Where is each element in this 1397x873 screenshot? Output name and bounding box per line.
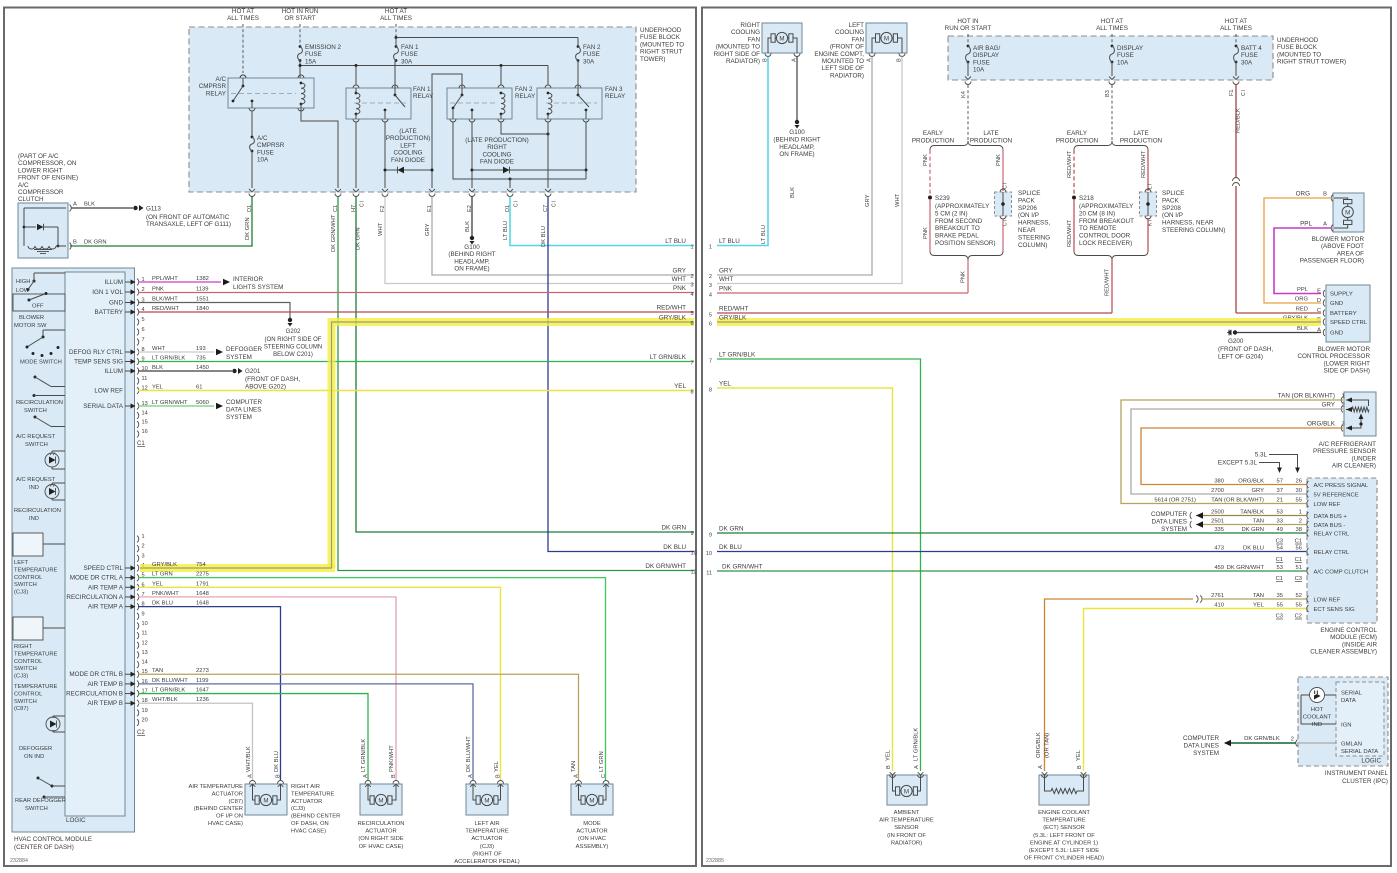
page 1 border frame: [4, 8, 696, 867]
switch: LEFT TEMPERATURE CONTROL SWITCH (CJ3): [13, 533, 43, 556]
svg-text:CONTROL DOOR: CONTROL DOOR: [1079, 233, 1131, 240]
svg-text:15: 15: [142, 420, 148, 426]
svg-text:TEMPERATURE: TEMPERATURE: [1042, 818, 1086, 824]
split brace top (PNK): [930, 141, 1003, 150]
svg-text:RELAY: RELAY: [413, 93, 434, 100]
svg-text:HIGH: HIGH: [16, 279, 31, 285]
svg-text:DK GRN/WHT: DK GRN/WHT: [1227, 565, 1265, 571]
svg-text:A: A: [248, 774, 254, 778]
wire: PNK late production into splice pack SP206: [1002, 150, 1004, 191]
svg-text:YEL: YEL: [719, 381, 731, 388]
svg-text:TEMP SENS SIG: TEMP SENS SIG: [74, 359, 123, 366]
svg-text:SP206: SP206: [1018, 205, 1037, 212]
wire: FAN2 coil joins FAN3 coil control column: [501, 122, 548, 134]
svg-text:YEL: YEL: [1076, 749, 1082, 761]
svg-text:RIGHT: RIGHT: [14, 644, 32, 650]
svg-text:(BEHIND RIGHT: (BEHIND RIGHT: [448, 251, 495, 258]
svg-text:B: B: [73, 240, 77, 246]
svg-text:7: 7: [709, 359, 712, 365]
svg-text:DEFOGGER: DEFOGGER: [226, 346, 262, 353]
svg-text:RIGHT AIR: RIGHT AIR: [291, 784, 320, 790]
indicator: HOT COOLANT IND: [1310, 688, 1325, 703]
splice pack SP206 box: [995, 192, 1012, 216]
svg-text:TEMPERATURE: TEMPERATURE: [465, 829, 509, 835]
fuse: EMISSION 2 FUSE 15A: [299, 45, 302, 48]
svg-text:B: B: [886, 765, 892, 769]
svg-text:30A: 30A: [583, 58, 595, 65]
svg-text:HOT IN RUN: HOT IN RUN: [282, 8, 319, 15]
svg-text:MODE SWITCH: MODE SWITCH: [20, 360, 62, 366]
svg-text:FUSE: FUSE: [583, 51, 600, 58]
svg-text:TOWER): TOWER): [640, 56, 665, 63]
svg-text:TAN (OR BLK/WHT): TAN (OR BLK/WHT): [1278, 393, 1335, 400]
svg-text:RELAY: RELAY: [515, 93, 536, 100]
svg-text:C1: C1: [1276, 557, 1283, 563]
svg-text:1648: 1648: [196, 601, 209, 607]
svg-text:380: 380: [1214, 479, 1224, 485]
svg-text:YEL: YEL: [152, 385, 164, 391]
svg-text:IND: IND: [1312, 722, 1322, 728]
svg-text:DK BLU: DK BLU: [541, 226, 547, 247]
svg-text:CONTROL: CONTROL: [14, 691, 43, 697]
svg-text:WHT/BLK: WHT/BLK: [152, 697, 178, 703]
svg-text:C l: C l: [1003, 183, 1009, 189]
IPC wiring: serial data / ign loop: [1325, 694, 1337, 696]
svg-text:PNK: PNK: [923, 227, 929, 239]
svg-text:C l: C l: [552, 201, 558, 207]
indicator: RECIRCULATION IND: [52, 482, 65, 484]
svg-text:1236: 1236: [196, 697, 209, 703]
svg-text:F1: F1: [1229, 89, 1235, 96]
component: BLOWER MOTOR CONTROL PROCESSOR box: [1326, 285, 1370, 342]
svg-text:9: 9: [142, 611, 145, 617]
svg-text:WHT: WHT: [672, 276, 686, 283]
svg-text:OFF: OFF: [32, 304, 44, 310]
svg-text:A: A: [574, 774, 580, 778]
svg-text:5: 5: [691, 311, 694, 317]
wire: PNK early production with splice S239: [929, 150, 931, 196]
svg-text:PNK: PNK: [152, 287, 164, 293]
svg-text:C1: C1: [137, 441, 145, 447]
svg-text:NEAR: NEAR: [1018, 227, 1036, 234]
svg-text:A/C PRESS SIGNAL: A/C PRESS SIGNAL: [1314, 483, 1369, 489]
svg-text:B: B: [276, 774, 282, 778]
svg-text:FUSE: FUSE: [401, 51, 418, 58]
svg-text:DK BLU: DK BLU: [663, 544, 686, 551]
svg-text:PACK: PACK: [1018, 197, 1035, 204]
actuator M1: AIR TEMPERATURE ACTUATOR (C87) / RIGHT AIR TEMPERATURE ACTUATOR (CJ3): [245, 784, 287, 815]
svg-text:OF DASH, ON: OF DASH, ON: [291, 821, 329, 827]
wire: RED/WHT merged down to row 5: [1111, 260, 1113, 313]
wire: YEL from ECT pin B up to ECM ECT SENS SIG row: [1084, 609, 1307, 772]
svg-text:(UNDER: (UNDER: [1352, 455, 1377, 462]
splice pack SP208 box: [1140, 192, 1157, 216]
svg-text:ACTUATOR: ACTUATOR: [291, 799, 322, 805]
svg-text:1647: 1647: [196, 688, 209, 694]
svg-text:OF I/P ON: OF I/P ON: [216, 814, 243, 820]
wire: DK GRN from D1 to compressor clutch pin B: [70, 197, 252, 247]
svg-text:(ON RIGHT SIDE: (ON RIGHT SIDE: [358, 836, 403, 842]
svg-text:5: 5: [709, 313, 712, 319]
motor: RIGHT COOLING FAN: [762, 23, 802, 53]
wire: LT GRN/BLK row 7 to ambient sensor pin A: [717, 359, 921, 771]
svg-text:TEMPERATURE: TEMPERATURE: [14, 567, 58, 573]
svg-text:ON IND: ON IND: [24, 754, 44, 760]
svg-text:10A: 10A: [973, 67, 985, 74]
svg-text:335: 335: [1214, 527, 1224, 533]
svg-text:FAN 2: FAN 2: [515, 86, 533, 93]
svg-text:WHT: WHT: [378, 222, 384, 236]
svg-text:SWITCH: SWITCH: [14, 582, 37, 588]
svg-text:ECT SENS SIG: ECT SENS SIG: [1314, 607, 1356, 613]
svg-text:G100: G100: [789, 129, 805, 136]
svg-text:HOT AT: HOT AT: [1225, 18, 1247, 25]
svg-text:RIGHT STRUT TOWER): RIGHT STRUT TOWER): [1277, 59, 1346, 66]
svg-text:(ON I/P: (ON I/P: [1018, 212, 1039, 219]
svg-text:410: 410: [1214, 603, 1224, 609]
svg-text:IGN: IGN: [1341, 723, 1351, 729]
svg-text:2: 2: [1291, 737, 1294, 743]
svg-text:(CJ3): (CJ3): [480, 844, 494, 850]
svg-text:BREAKOUT TO: BREAKOUT TO: [935, 225, 980, 232]
svg-text:A/C: A/C: [257, 135, 268, 142]
svg-text:RELAY: RELAY: [605, 93, 626, 100]
diode D-right: (LATE PRODUCTION) RIGHT COOLING FAN DIODE: [472, 169, 586, 171]
svg-text:RIGHT: RIGHT: [487, 144, 507, 151]
svg-text:5V REFERENCE: 5V REFERENCE: [1314, 492, 1359, 498]
wire: FAN2 switch output to E2 terminal: [471, 122, 473, 188]
svg-text:ACTUATOR: ACTUATOR: [212, 791, 243, 797]
svg-text:YEL: YEL: [1253, 603, 1265, 609]
svg-text:DATA BUS -: DATA BUS -: [1314, 523, 1346, 529]
svg-text:CLUTCH: CLUTCH: [18, 196, 44, 203]
connector C2 pin brackets 1-20: [137, 536, 139, 543]
svg-text:LOWER RIGHT: LOWER RIGHT: [18, 167, 63, 174]
svg-text:RADIATOR): RADIATOR): [891, 840, 922, 846]
svg-text:AIR CLEANER): AIR CLEANER): [1332, 463, 1376, 470]
svg-text:57: 57: [1277, 479, 1283, 485]
svg-text:(CJ3): (CJ3): [14, 674, 28, 680]
svg-text:DEFOGGER: DEFOGGER: [19, 746, 52, 752]
svg-text:C1: C1: [1295, 557, 1302, 563]
svg-text:9: 9: [691, 531, 694, 537]
svg-text:A: A: [914, 765, 920, 769]
svg-text:(RIGHT OF: (RIGHT OF: [472, 851, 502, 857]
connector C1 pin brackets 1-16: [137, 279, 139, 286]
svg-text:GRY: GRY: [1321, 402, 1335, 409]
svg-text:DEFOG RLY CTRL: DEFOG RLY CTRL: [69, 349, 123, 356]
svg-text:RELAY CTRL: RELAY CTRL: [1314, 550, 1351, 556]
svg-text:FAN 3: FAN 3: [605, 86, 623, 93]
svg-text:(BEHIND CENTER: (BEHIND CENTER: [194, 806, 243, 812]
svg-text:459: 459: [1214, 565, 1224, 571]
svg-text:D: D: [1317, 298, 1321, 304]
svg-text:ACTUATOR: ACTUATOR: [471, 836, 502, 842]
svg-text:DK GRN: DK GRN: [662, 525, 687, 532]
svg-text:49: 49: [1277, 527, 1283, 533]
ground G100 (page1): [470, 236, 474, 240]
svg-text:11: 11: [691, 570, 697, 576]
svg-text:PPL: PPL: [1297, 287, 1309, 293]
svg-text:PNK: PNK: [961, 271, 967, 283]
svg-text:COMPUTER: COMPUTER: [226, 399, 262, 406]
svg-text:3: 3: [691, 283, 694, 289]
svg-text:M: M: [779, 35, 784, 42]
svg-text:LOGIC: LOGIC: [1361, 758, 1381, 765]
svg-text:(FRONT OF: (FRONT OF: [830, 44, 864, 51]
svg-text:LOW REF: LOW REF: [1314, 597, 1341, 603]
svg-text:S239: S239: [935, 195, 950, 202]
svg-text:INSTRUMENT PANEL: INSTRUMENT PANEL: [1325, 770, 1389, 777]
svg-text:SWITCH: SWITCH: [25, 806, 48, 812]
split brace bottom (RED/WHT): [1074, 251, 1148, 260]
svg-text:ORG: ORG: [1295, 297, 1309, 303]
svg-text:IND: IND: [29, 485, 39, 491]
svg-text:10A: 10A: [257, 157, 269, 164]
svg-text:A/C: A/C: [18, 182, 29, 189]
svg-text:1: 1: [142, 534, 145, 540]
wire: TAN sensor pin1 loop to ECM LOW REF: [1121, 400, 1343, 504]
svg-text:BELOW C201): BELOW C201): [273, 352, 313, 358]
svg-text:(C87): (C87): [229, 799, 244, 805]
svg-text:RELAY CTRL: RELAY CTRL: [1314, 531, 1351, 537]
svg-text:(FRONT OF DASH,: (FRONT OF DASH,: [245, 376, 300, 383]
underhood fuse block (page 1) dashed enclosure: [189, 27, 636, 192]
svg-text:(PART OF A/C: (PART OF A/C: [18, 153, 59, 160]
wire: WHT from left fan pin B to row 3: [717, 57, 902, 284]
svg-text:LT GRN/BLK: LT GRN/BLK: [361, 739, 367, 772]
svg-text:HVAC CONTROL MODULE: HVAC CONTROL MODULE: [14, 836, 92, 843]
svg-text:A/C: A/C: [216, 76, 227, 83]
svg-text:PRODUCTION: PRODUCTION: [970, 138, 1013, 145]
svg-text:TAN (OR BLK/WHT): TAN (OR BLK/WHT): [1211, 498, 1264, 504]
svg-text:COLUMN): COLUMN): [1018, 242, 1047, 249]
sensor: ENGINE COOLANT TEMPERATURE (ECT) SENSOR: [1039, 775, 1089, 805]
svg-text:54: 54: [1277, 546, 1284, 552]
svg-text:26: 26: [1296, 479, 1302, 485]
svg-text:LT GRN/WHT: LT GRN/WHT: [152, 400, 188, 406]
svg-text:11: 11: [142, 376, 148, 382]
svg-text:YEL: YEL: [886, 749, 892, 761]
wire: DK BLU from C7 down to output row 10: [548, 197, 694, 552]
svg-text:UNDERHOOD: UNDERHOOD: [640, 27, 682, 34]
svg-text:RED: RED: [1296, 307, 1308, 313]
svg-text:14: 14: [142, 660, 148, 666]
svg-text:SPLICE: SPLICE: [1018, 190, 1040, 197]
svg-text:PPL: PPL: [1300, 221, 1312, 228]
svg-text:A/C REQUEST: A/C REQUEST: [16, 434, 56, 440]
svg-text:SYSTEM: SYSTEM: [226, 354, 252, 361]
inline break on TAN wire to ECM: [1196, 596, 1198, 603]
svg-text:DK GRN/WHT: DK GRN/WHT: [645, 563, 686, 570]
svg-text:PRODUCTION: PRODUCTION: [1120, 138, 1163, 145]
svg-text:COOLING: COOLING: [835, 29, 864, 36]
svg-text:DK GRN/WHT: DK GRN/WHT: [331, 214, 337, 252]
svg-text:BLK: BLK: [1297, 326, 1308, 332]
svg-text:30A: 30A: [1241, 59, 1253, 66]
ECM pin brackets and labels: [1307, 481, 1309, 488]
svg-text:38: 38: [1296, 527, 1302, 533]
svg-text:(MOUNTED TO: (MOUNTED TO: [716, 44, 760, 51]
svg-text:6: 6: [691, 321, 694, 327]
split brace bottom (PNK): [930, 251, 1003, 260]
svg-text:CMPRSR: CMPRSR: [257, 142, 285, 149]
svg-text:LATE: LATE: [1133, 130, 1148, 137]
wire: A/C relay output to A/C CMPRSR fuse: [251, 111, 253, 137]
svg-text:(EXCEPT 5.3L: LEFT SIDE: (EXCEPT 5.3L: LEFT SIDE: [1029, 848, 1099, 854]
svg-text:(LOWER RIGHT: (LOWER RIGHT: [1323, 360, 1370, 367]
svg-text:61: 61: [196, 385, 202, 391]
svg-text:13: 13: [142, 650, 148, 656]
svg-text:1551: 1551: [196, 297, 209, 303]
component: HVAC CONTROL MODULE outer box: [12, 268, 135, 832]
wire: dashed drop from B3 to early/late split: [1111, 85, 1113, 141]
motor: LEFT COOLING FAN: [866, 23, 907, 53]
svg-text:PASSENGER FLOOR): PASSENGER FLOOR): [1300, 258, 1364, 265]
svg-text:ENGINE COOLANT: ENGINE COOLANT: [1038, 810, 1090, 816]
svg-text:HVAC CASE): HVAC CASE): [208, 821, 243, 827]
svg-text:21: 21: [1277, 498, 1283, 504]
svg-text:14: 14: [142, 411, 148, 417]
svg-text:AIR TEMP A: AIR TEMP A: [88, 584, 124, 591]
svg-text:(APPROXIMATELY: (APPROXIMATELY: [935, 203, 990, 210]
svg-text:S218: S218: [1079, 195, 1094, 202]
actuator M2: RECIRCULATION ACTUATOR: [360, 784, 402, 815]
switch: RIGHT TEMPERATURE CONTROL SWITCH (CJ3): [13, 617, 43, 640]
svg-text:10A: 10A: [1117, 59, 1129, 66]
wire: YEL row 8 to ambient sensor pin B: [717, 388, 893, 771]
svg-text:RECIRCULATION B: RECIRCULATION B: [66, 691, 123, 698]
svg-text:1450: 1450: [196, 365, 209, 371]
svg-text:2761: 2761: [1211, 593, 1224, 599]
svg-text:B: B: [1323, 192, 1327, 198]
svg-text:193: 193: [196, 346, 206, 352]
svg-text:B: B: [391, 774, 397, 778]
svg-text:TEMPERATURE: TEMPERATURE: [14, 684, 58, 690]
svg-text:YEL: YEL: [494, 760, 500, 772]
svg-text:TRANSAXLE, LEFT OF G111): TRANSAXLE, LEFT OF G111): [146, 221, 231, 228]
svg-text:C: C: [601, 774, 607, 778]
svg-text:(ON RIGHT SIDE OF: (ON RIGHT SIDE OF: [265, 337, 322, 343]
svg-text:DK BLU: DK BLU: [152, 601, 173, 607]
svg-text:IND: IND: [29, 516, 39, 522]
svg-text:DK GRN: DK GRN: [1241, 527, 1264, 533]
svg-text:COMPUTER: COMPUTER: [1151, 511, 1187, 518]
svg-text:(ON HVAC: (ON HVAC: [578, 836, 606, 842]
svg-text:33: 33: [1277, 519, 1283, 525]
svg-text:LOW REF: LOW REF: [1314, 502, 1341, 508]
relay U2: FAN 1 RELAY: [346, 88, 411, 119]
svg-text:DK BLU: DK BLU: [1243, 546, 1264, 552]
svg-text:735: 735: [196, 356, 206, 362]
svg-text:B3: B3: [1105, 90, 1111, 97]
svg-text:REAR DEFOGGER: REAR DEFOGGER: [15, 798, 66, 804]
svg-text:G113: G113: [146, 206, 161, 213]
svg-text:(MOUNTED TO: (MOUNTED TO: [640, 41, 684, 48]
svg-text:C3: C3: [1295, 576, 1302, 582]
svg-text:AIR TEMP B: AIR TEMP B: [88, 700, 123, 707]
svg-text:OR START: OR START: [284, 15, 315, 22]
svg-text:LOCK RECEIVER): LOCK RECEIVER): [1079, 240, 1132, 247]
svg-text:55: 55: [1296, 603, 1302, 609]
svg-text:CONTROL: CONTROL: [14, 659, 43, 665]
svg-text:A/C REFRIGERANT: A/C REFRIGERANT: [1319, 441, 1377, 448]
svg-text:TAN: TAN: [571, 761, 577, 772]
svg-text:LT BLU: LT BLU: [761, 225, 767, 244]
svg-text:8: 8: [691, 390, 694, 396]
svg-text:DK GRN: DK GRN: [245, 217, 251, 240]
wire: RED/WHT below SP208: [1147, 218, 1149, 251]
svg-text:LT GRN: LT GRN: [152, 572, 173, 578]
svg-text:DK GRN: DK GRN: [719, 526, 744, 533]
svg-text:ABOVE G202): ABOVE G202): [245, 383, 286, 390]
svg-text:SWITCH: SWITCH: [14, 699, 37, 705]
wire: DK BLU row 10 to ECM RELAY CTRL: [717, 551, 1306, 553]
wire: dashed feed to FAN 1 fuse with branch to FAN 2 fuse: [395, 24, 397, 37]
svg-text:YEL: YEL: [674, 383, 686, 390]
svg-text:MODE: MODE: [583, 821, 601, 827]
svg-text:B: B: [496, 774, 502, 778]
svg-text:LT GRN/BLK: LT GRN/BLK: [719, 352, 756, 359]
svg-text:BATTERY: BATTERY: [1330, 311, 1357, 317]
svg-text:RIGHT SIDE OF: RIGHT SIDE OF: [714, 51, 761, 58]
svg-text:(LATE PRODUCTION): (LATE PRODUCTION): [465, 137, 529, 144]
svg-text:INTERIOR: INTERIOR: [233, 276, 264, 283]
svg-text:DK BLU: DK BLU: [274, 751, 280, 772]
svg-text:DISPLAY: DISPLAY: [1117, 45, 1144, 52]
svg-text:RECIRCULATION: RECIRCULATION: [14, 508, 61, 514]
svg-text:11: 11: [142, 631, 148, 637]
svg-text:(CENTER OF DASH): (CENTER OF DASH): [14, 844, 74, 851]
svg-text:2500: 2500: [1211, 510, 1224, 516]
svg-text:15A: 15A: [305, 58, 317, 65]
svg-text:LEFT: LEFT: [849, 22, 865, 29]
svg-text:ALL TIMES: ALL TIMES: [1096, 25, 1128, 32]
svg-text:G202: G202: [286, 329, 301, 335]
inline break symbol on RED/BLK: [1233, 178, 1240, 182]
svg-text:RADIATOR): RADIATOR): [830, 72, 864, 79]
relay U3: FAN 2 RELAY: [447, 88, 512, 119]
IPC GMLAN SERIAL DATA pin 2 wire DK GRN/BLK to data lines: [1299, 742, 1336, 744]
svg-text:C l: C l: [1241, 90, 1247, 96]
svg-text:GND: GND: [1330, 301, 1343, 307]
wire: BLK from right fan pin A to ground G100: [796, 57, 798, 121]
svg-text:ON FRAME): ON FRAME): [779, 151, 814, 158]
svg-text:COOLING: COOLING: [731, 29, 760, 36]
svg-text:PRODUCTION): PRODUCTION): [386, 135, 430, 142]
svg-text:FROM SECOND: FROM SECOND: [935, 218, 983, 225]
svg-text:5: 5: [142, 317, 145, 323]
svg-text:DK BLU/WHT: DK BLU/WHT: [466, 736, 472, 772]
svg-text:C2: C2: [137, 730, 145, 736]
svg-text:ALL TIMES: ALL TIMES: [1220, 25, 1252, 32]
svg-text:DK BLU/WHT: DK BLU/WHT: [152, 678, 188, 684]
svg-text:(ON I/P: (ON I/P: [1162, 212, 1183, 219]
svg-text:STEERING: STEERING: [1018, 234, 1050, 241]
svg-text:(APPROXIMATELY: (APPROXIMATELY: [1079, 203, 1134, 210]
motor: BLOWER MOTOR: [1333, 193, 1364, 232]
svg-text:GMLAN: GMLAN: [1341, 742, 1362, 748]
svg-text:FAN: FAN: [748, 36, 761, 43]
wire: FAN3 switch output to diode bus: [585, 122, 587, 179]
svg-text:BLK/WHT: BLK/WHT: [152, 297, 178, 303]
svg-text:AIR TEMP A: AIR TEMP A: [88, 604, 124, 611]
svg-text:SERIAL: SERIAL: [1341, 691, 1363, 697]
svg-text:TO REMOTE: TO REMOTE: [1079, 225, 1116, 232]
clutch pin B: [70, 243, 72, 250]
svg-text:SERIAL DATA: SERIAL DATA: [1341, 749, 1378, 755]
svg-text:COMPUTER: COMPUTER: [1183, 735, 1219, 742]
